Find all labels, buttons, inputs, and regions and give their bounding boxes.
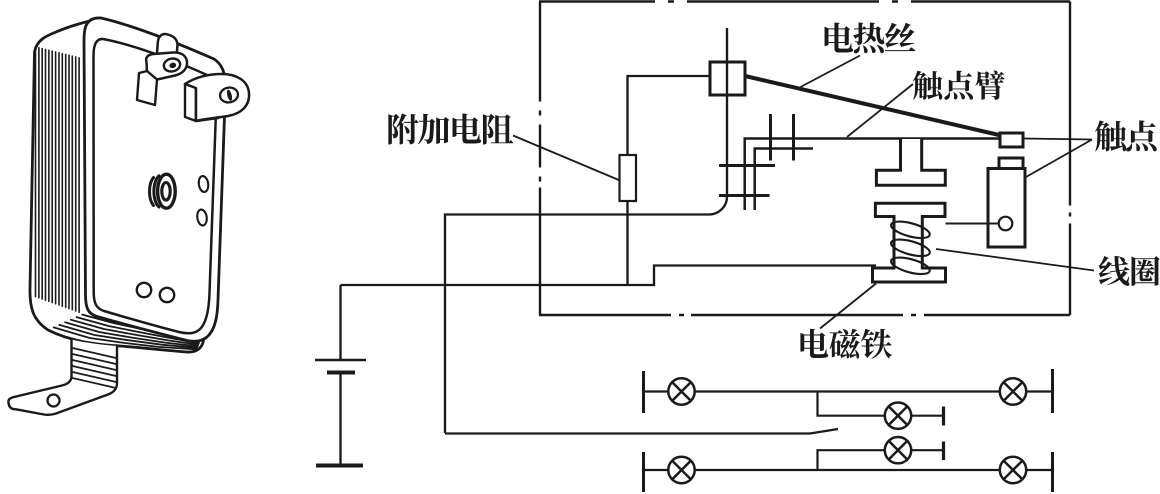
branch lamp upper [818, 392, 943, 416]
leader 电热丝 [801, 56, 861, 88]
lamp L6 [1000, 457, 1026, 483]
terminal lug 2 [185, 84, 196, 121]
lamp L5 [668, 457, 694, 483]
coil turns [889, 218, 931, 277]
side holes [198, 175, 210, 192]
contact arm (触点臂) [745, 139, 1001, 211]
label 触点 [1095, 120, 1126, 151]
enclosure border bottom [539, 314, 1070, 317]
device back silhouette [30, 19, 204, 352]
heating wire (电热丝) [745, 76, 999, 135]
enclosure border right [1069, 2, 1071, 316]
lamp L1 [668, 378, 694, 404]
label 电磁铁 [800, 329, 828, 358]
label 线圈 [1099, 256, 1130, 286]
bottom holes [137, 283, 151, 297]
label 触点臂 [913, 71, 942, 100]
wire resistor branch [626, 201, 628, 285]
wire to fixed contact [946, 223, 999, 225]
bracket hole [48, 395, 60, 407]
wire resistor to heater [628, 76, 711, 155]
lamp L3 [885, 403, 911, 429]
switch blade wire [445, 429, 838, 434]
terminal lug 1 [156, 34, 178, 66]
bimetal through line [445, 28, 727, 433]
mounting bracket [8, 340, 117, 415]
battery [339, 285, 341, 359]
leader 线圈 [936, 249, 1094, 271]
leader 触点臂 [847, 84, 913, 137]
enclosure border left [539, 2, 541, 316]
moving contact [1000, 133, 1023, 147]
electromagnet core (电磁铁) [873, 203, 946, 282]
fixed contact terminal [999, 158, 1023, 169]
lamp L2 [1000, 378, 1026, 404]
leader 电磁铁 [820, 284, 876, 329]
grommet [149, 178, 153, 206]
relay body front face [84, 18, 224, 340]
lamp row 2 [642, 452, 645, 492]
label 电热丝 [825, 22, 854, 52]
branch lamp lower [818, 450, 943, 470]
leader 附加电阻 [513, 136, 620, 181]
lamp row 1 [642, 371, 645, 413]
label 附加电阻 [388, 113, 418, 144]
enclosure border top [539, 0, 1070, 3]
lamp L4 [885, 437, 911, 463]
heater square [710, 62, 745, 95]
insulation ticks [719, 114, 794, 196]
leaders 触点 [1024, 139, 1093, 178]
armature [876, 139, 945, 185]
resistor R (附加电阻) [620, 155, 637, 201]
wire battery to electromagnet [341, 266, 877, 286]
left side fins hatching [36, 47, 80, 312]
bottom fins band stripes [54, 315, 200, 350]
front face inner outline [94, 39, 217, 333]
